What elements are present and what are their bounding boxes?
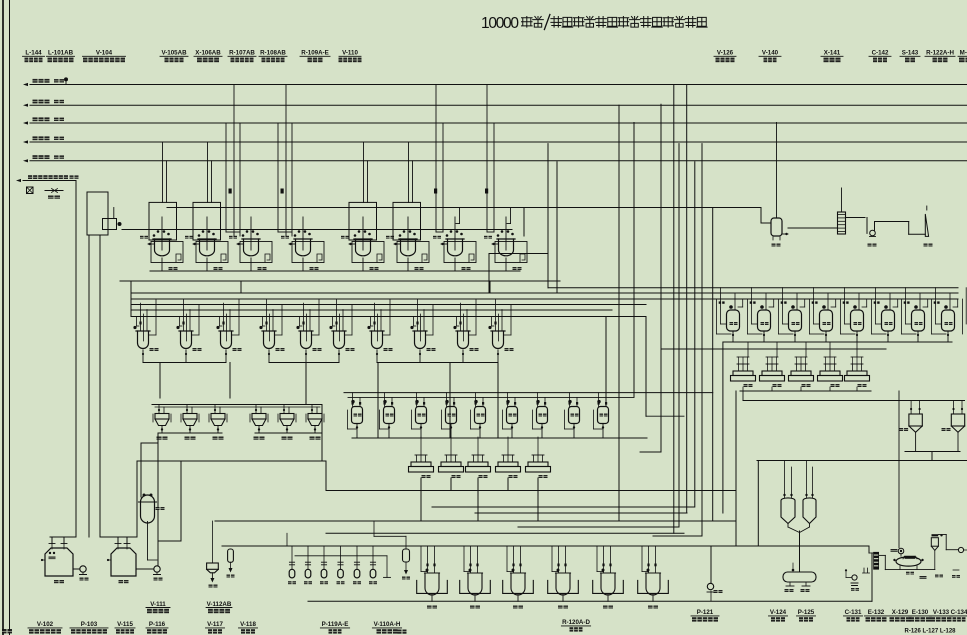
svg-text:10000: 10000 — [481, 15, 519, 32]
svg-text:L-101AB: L-101AB — [48, 50, 74, 57]
svg-text:V-104: V-104 — [96, 50, 113, 57]
svg-text:E-130: E-130 — [912, 609, 929, 616]
svg-text:R-108AB: R-108AB — [260, 50, 286, 57]
svg-text:V-102: V-102 — [37, 621, 54, 628]
svg-text:C-142: C-142 — [872, 50, 889, 57]
svg-text:X-129: X-129 — [892, 609, 909, 616]
svg-text:C-134: C-134 — [951, 609, 967, 616]
svg-text:V-133: V-133 — [933, 609, 950, 616]
svg-text:V-105AB: V-105AB — [161, 50, 187, 57]
svg-text:V-126: V-126 — [717, 50, 734, 57]
svg-text:V-117: V-117 — [207, 621, 223, 628]
svg-text:P-125: P-125 — [798, 609, 815, 616]
svg-text:V-110: V-110 — [342, 50, 358, 57]
svg-text:E-132: E-132 — [868, 609, 885, 616]
svg-text:V-111: V-111 — [150, 601, 166, 608]
svg-text:X-106AB: X-106AB — [195, 50, 221, 57]
svg-text:V-112AB: V-112AB — [207, 601, 232, 608]
svg-text:R-120A-D: R-120A-D — [562, 619, 590, 626]
svg-text:R-109A-E: R-109A-E — [301, 50, 329, 57]
svg-text:R-122A-H: R-122A-H — [926, 50, 954, 57]
svg-text:V-140: V-140 — [762, 50, 779, 57]
svg-text:S-143: S-143 — [902, 50, 919, 57]
svg-text:P-119A-E: P-119A-E — [322, 621, 349, 628]
svg-text:P-116: P-116 — [149, 621, 166, 628]
svg-text:V-124: V-124 — [770, 609, 787, 616]
svg-text:R-126 L-127 L-128: R-126 L-127 L-128 — [904, 629, 956, 635]
svg-text:R-107AB: R-107AB — [229, 50, 255, 57]
svg-text:P-103: P-103 — [81, 621, 98, 628]
svg-text:X-141: X-141 — [824, 50, 841, 57]
svg-text:P-121: P-121 — [697, 609, 714, 616]
svg-text:V-115: V-115 — [117, 621, 133, 628]
svg-text:C-131: C-131 — [845, 609, 862, 616]
svg-text:M-1: M-1 — [960, 50, 967, 57]
svg-text:V-118: V-118 — [240, 621, 256, 628]
svg-text:V-110A-H: V-110A-H — [374, 621, 401, 628]
svg-text:L-144: L-144 — [25, 50, 42, 57]
